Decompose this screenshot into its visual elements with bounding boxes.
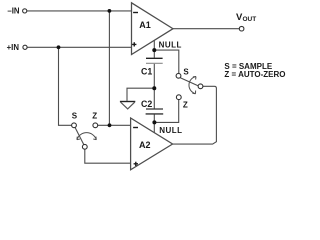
svg-text:C1: C1 — [141, 67, 152, 77]
svg-text:A2: A2 — [139, 140, 151, 150]
svg-text:Z: Z — [183, 100, 188, 109]
svg-text:S: S — [72, 111, 78, 120]
svg-text:Z = AUTO-ZERO: Z = AUTO-ZERO — [224, 70, 285, 79]
svg-text:A1: A1 — [139, 20, 151, 30]
svg-text:OUT: OUT — [243, 16, 257, 23]
svg-text:S: S — [183, 68, 189, 77]
svg-text:Z: Z — [92, 111, 97, 120]
svg-text:–IN: –IN — [7, 7, 20, 16]
svg-text:C2: C2 — [141, 99, 152, 109]
svg-text:+IN: +IN — [7, 43, 20, 52]
svg-text:NULL: NULL — [159, 126, 182, 135]
svg-text:NULL: NULL — [159, 41, 182, 50]
